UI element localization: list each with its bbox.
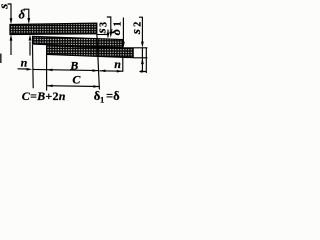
- formula delta1=delta: [94, 89, 120, 104]
- dim segment far right with arrow: [140, 70, 147, 73]
- dimension delta arrow: [24, 9, 31, 24]
- extension line E2 from plate3 left edge: [46, 55, 48, 91]
- svg-text:n: n: [21, 56, 28, 70]
- dim n left leader with arrow: [18, 68, 33, 71]
- svg-text:s: s: [94, 28, 109, 34]
- svg-text:n: n: [114, 57, 121, 71]
- extension line E1 from plate2 left edge: [32, 45, 35, 89]
- left edge scan artifact: [0, 54, 2, 64]
- dim line B row: [33, 69, 99, 72]
- horizontal ext of plate2 bottom to right: [123, 47, 147, 49]
- plate 3 (bottom-right sheet, slight tilt): [47, 46, 134, 58]
- dimension s arrow: [8, 4, 13, 24]
- delta1 arrow right: [122, 18, 125, 49]
- s3 ref line (plate1 bottom extended): [97, 34, 109, 36]
- svg-text:B: B: [69, 59, 78, 73]
- plate 1 (top-left sheet): [10, 23, 97, 34]
- label delta1: [109, 22, 123, 36]
- extension line E3 from plate1 right edge: [97, 34, 100, 89]
- svg-text:=δ: =δ: [106, 89, 120, 103]
- up arrow at far right pointing to plate3 bottom ext: [141, 48, 144, 72]
- s2 arrow: [139, 17, 144, 48]
- s3 arrow: [107, 33, 110, 39]
- up arrow under plate1 left: [10, 34, 13, 55]
- svg-text:1: 1: [113, 22, 124, 27]
- label s: [0, 4, 10, 10]
- svg-text:C: C: [72, 73, 81, 87]
- dim line C: [47, 85, 100, 88]
- plate 2 (middle sheet, slight tilt): [33, 36, 123, 47]
- up arrow under plate1 at delta: [29, 34, 32, 55]
- extension line E4 from plate2 right edge: [122, 58, 124, 72]
- extension line E5 far right: [145, 48, 147, 73]
- svg-text:C=B+2n: C=B+2n: [22, 89, 66, 103]
- label delta: [19, 8, 26, 22]
- horizontal ext of plate3 bottom to right: [133, 57, 147, 59]
- svg-text:δ: δ: [19, 8, 26, 22]
- svg-text:s: s: [128, 29, 143, 35]
- svg-text:1: 1: [100, 94, 104, 104]
- dim line right n segment: [99, 70, 122, 73]
- delta1 arrow left: [107, 17, 112, 38]
- background: [0, 0, 148, 106]
- label s3: [94, 22, 110, 34]
- label s2: [128, 22, 144, 35]
- svg-text:3: 3: [99, 22, 110, 27]
